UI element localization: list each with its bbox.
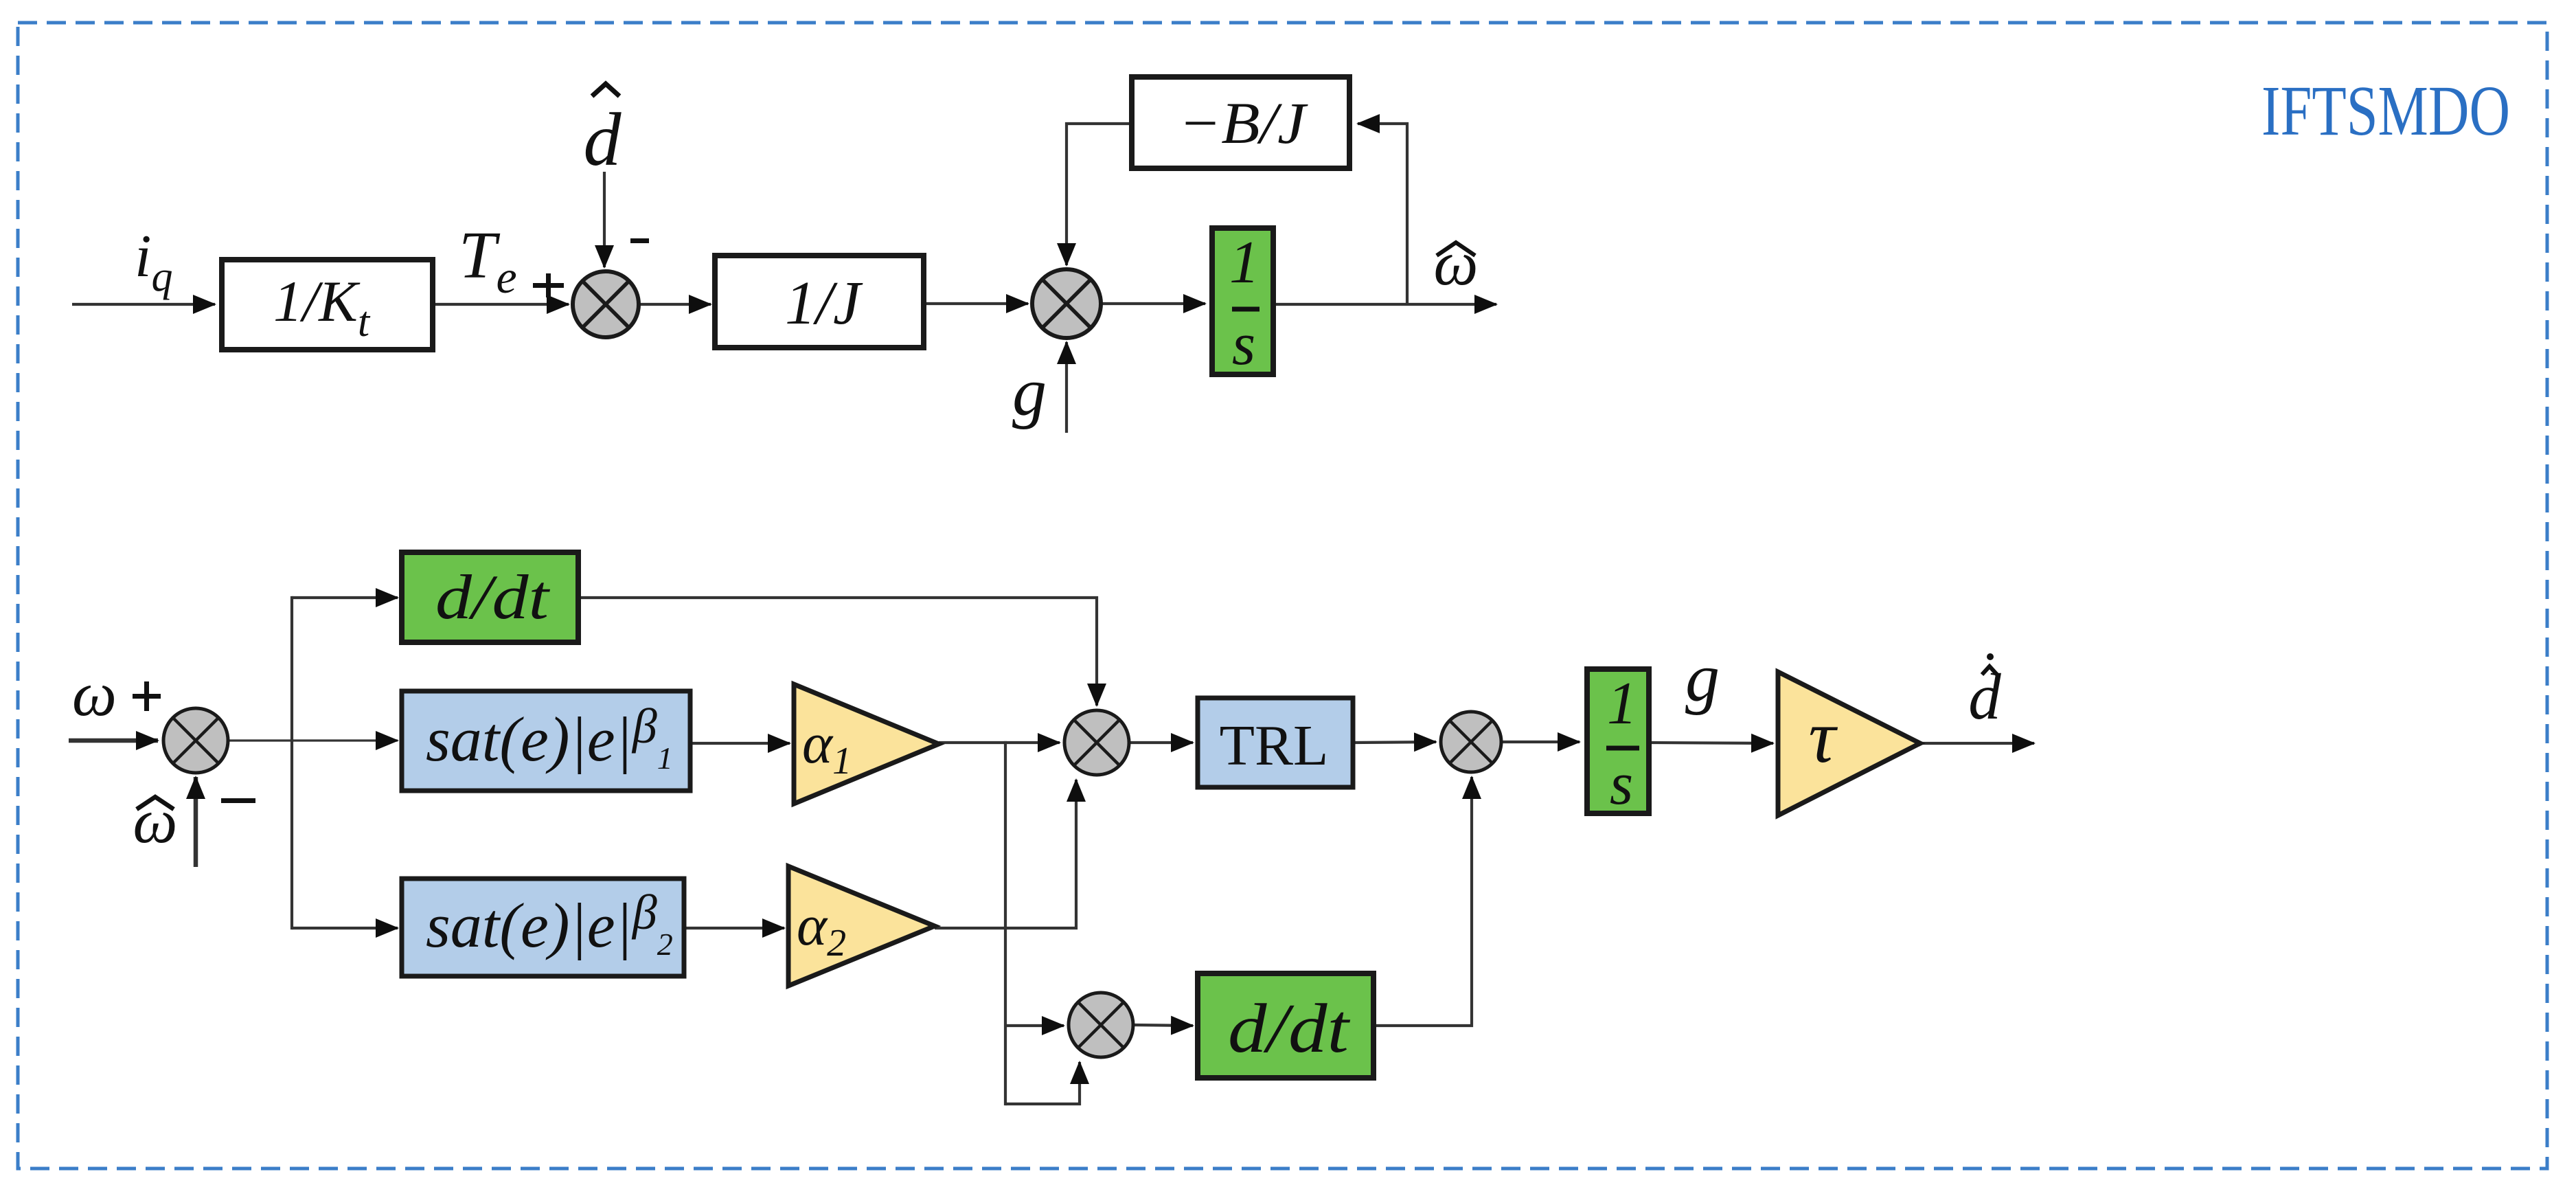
svg-text:g: g <box>1012 354 1047 430</box>
svg-text:d/dt: d/dt <box>1228 990 1351 1068</box>
svg-text:TRL: TRL <box>1220 714 1329 778</box>
svg-text:−B/J: −B/J <box>1178 90 1308 156</box>
svg-text:iq: iq <box>135 223 172 300</box>
svg-text:1: 1 <box>1229 229 1259 296</box>
svg-text:1/J: 1/J <box>785 269 863 337</box>
svg-text:d: d <box>584 98 622 181</box>
svg-text:s: s <box>1610 751 1633 817</box>
svg-text:IFTSMDO: IFTSMDO <box>2261 71 2510 150</box>
svg-text:1: 1 <box>1607 670 1637 737</box>
svg-text:τ: τ <box>1808 695 1838 778</box>
svg-text:s: s <box>1232 311 1255 378</box>
svg-text:g: g <box>1685 640 1720 716</box>
svg-text:ω: ω <box>72 659 117 729</box>
svg-text:d/dt: d/dt <box>435 562 551 632</box>
svg-text:ω: ω <box>1434 228 1479 298</box>
svg-text:Te: Te <box>459 218 517 303</box>
